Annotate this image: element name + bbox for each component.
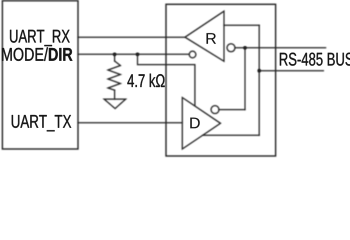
junction dot bus line A — [257, 69, 261, 73]
wire UART_RX net — [78, 36, 185, 38]
label R — [207, 33, 216, 44]
label 4.7 kOhm — [127, 74, 164, 87]
driver inverting output bubble — [211, 106, 219, 114]
wire bus line B vertical — [244, 48, 246, 110]
wire bus A stub to RS-485 BUS — [259, 70, 323, 72]
op-amp D (driver buffer) — [182, 98, 220, 150]
junction dot on MODE/DIR at DE branch — [136, 53, 140, 57]
op-amp R (receiver buffer) — [185, 11, 224, 61]
transceiver IC box — [166, 4, 276, 156]
wire resistor top lead — [114, 54, 116, 61]
receiver enable bubble (RE) — [189, 51, 196, 58]
wire driver inverting output — [219, 109, 245, 111]
wire driver enable DE branch — [138, 54, 195, 106]
label MODE/DIR — [2, 47, 72, 61]
label RS-485 BUS — [280, 53, 350, 66]
receiver inverting input bubble — [227, 44, 235, 52]
resistor R1 4.7 kOhm zigzag — [108, 61, 120, 90]
junction dot on MODE/DIR at resistor — [113, 53, 117, 57]
wire driver noninverting output — [203, 134, 259, 136]
wire receiver noninverting input A — [224, 24, 259, 26]
junction dot bus line B — [243, 46, 247, 50]
wire bus line B horizontal — [235, 47, 326, 49]
label D — [190, 118, 199, 129]
ground — [104, 99, 126, 109]
wire MODE/DIR net — [78, 53, 189, 55]
wire UART_TX net — [78, 122, 182, 124]
label UART_TX — [12, 115, 71, 131]
wire bus line A vertical — [258, 25, 260, 135]
MCU box (UART side) — [2, 1, 78, 149]
label UART_RX — [10, 30, 70, 46]
wire resistor bottom lead — [114, 90, 116, 99]
